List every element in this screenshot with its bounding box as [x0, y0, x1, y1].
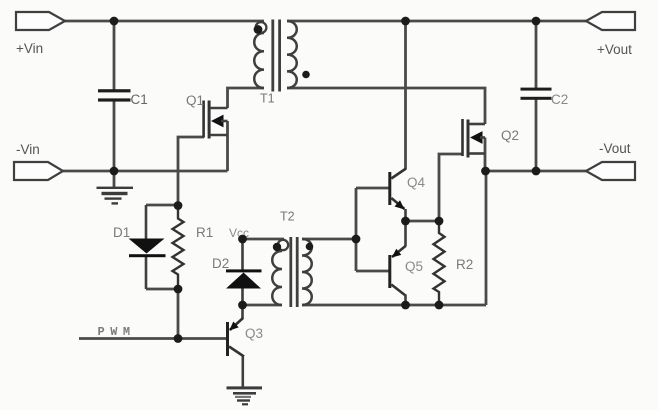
node: D2 / T2 primary bottom / Q3 emitter: [238, 301, 247, 310]
wire: Q2 source to -Vout rail: [484, 138, 487, 172]
svg-text:+Vin: +Vin: [16, 41, 43, 56]
wire: Q5 base: [356, 270, 389, 273]
terminal +Vin: [16, 12, 65, 56]
node: driver output left: [401, 217, 410, 226]
transformer T1: [254, 20, 310, 106]
svg-text:-Vout: -Vout: [599, 141, 631, 156]
node: bottom line / Q5 collector: [401, 301, 410, 310]
svg-text:C1: C1: [131, 92, 148, 107]
wire: Q4 base: [356, 187, 389, 190]
svg-text:Q4: Q4: [407, 175, 426, 190]
wire: ground stem at C1: [113, 171, 116, 187]
svg-text:Q2: Q2: [501, 128, 519, 143]
wire: T2 primary bottom to D2 node: [243, 304, 283, 307]
transistor Q3 (PNP): [226, 305, 263, 387]
wire: riser bottom line to -Vout rail: [485, 171, 488, 305]
transformer T2: [272, 210, 313, 308]
node: D1-R1 bottom: [174, 285, 183, 294]
node: Vcc junction: [238, 235, 247, 244]
node: T2 secondary to base bus: [352, 235, 361, 244]
capacitor C1: [98, 89, 148, 107]
diode D1: [113, 205, 166, 289]
wire: R1 bottom to PWM line: [177, 289, 180, 339]
ground (input side): [97, 187, 134, 205]
svg-text:C2: C2: [551, 92, 568, 107]
wire: PWM input line: [79, 337, 226, 340]
svg-text:T2: T2: [280, 210, 295, 224]
wire: D1-R1 top link: [146, 204, 178, 207]
mosfet Q2: [461, 119, 519, 158]
node: driver output right / R2 top: [435, 217, 444, 226]
wire: T1 secondary bottom to Q2 drain: [287, 88, 485, 124]
svg-text:-Vin: -Vin: [16, 142, 40, 157]
wire: T2 secondary top to driver bases: [302, 238, 356, 241]
wire: driver output node X: [406, 220, 440, 223]
svg-text:+Vout: +Vout: [597, 42, 632, 57]
svg-text:T1: T1: [260, 92, 275, 106]
svg-text:Q5: Q5: [405, 259, 423, 274]
svg-text:Q3: Q3: [245, 326, 263, 341]
wire: top rail from T1 secondary to +Vout: [287, 20, 587, 23]
node: -Vin rail / C1 / ground: [110, 167, 119, 176]
node: -Vout rail / Q2 source: [481, 167, 490, 176]
svg-text:D2: D2: [212, 256, 229, 271]
terminal +Vout: [586, 12, 635, 57]
resistor R2: [434, 221, 474, 305]
wire: -Vin rail: [63, 170, 228, 173]
node: -Vout rail / C2: [532, 167, 541, 176]
node: D1-R1 top: [174, 201, 183, 210]
wire: Q2 gate drop: [439, 154, 462, 221]
resistor R1: [173, 206, 214, 289]
terminal -Vin: [14, 142, 63, 180]
node: bottom line / R2 bottom: [435, 301, 444, 310]
wire: D1-R1 bottom link: [146, 288, 178, 291]
node: top rail / C2: [532, 17, 541, 26]
diode D2: [212, 239, 262, 305]
node: PWM line junction: [174, 334, 183, 343]
wire: C2 bottom lead: [535, 99, 538, 171]
svg-text:R1: R1: [196, 225, 213, 240]
wire: Q1 gate to D1/R1 top node: [178, 137, 204, 206]
svg-text:D1: D1: [113, 225, 130, 240]
wire: C1 top lead: [113, 21, 116, 90]
capacitor C2: [521, 88, 569, 107]
wire: C2 top lead: [535, 21, 538, 89]
transistor Q5 (PNP): [388, 221, 423, 305]
wire: Q1 source to -Vin rail: [226, 121, 229, 171]
transistor Q4 (NPN): [388, 169, 425, 222]
svg-text:Q1: Q1: [186, 93, 204, 108]
wire: Q4 collector to top rail: [404, 21, 407, 169]
wire: bottom return line: [302, 304, 486, 307]
svg-text:R2: R2: [456, 257, 473, 272]
svg-text:PWM: PWM: [98, 325, 136, 339]
mosfet Q1: [186, 93, 228, 139]
wire: Vcc node to T2 primary top: [243, 238, 285, 241]
wire: C1 bottom lead: [113, 101, 116, 172]
node: top rail / C1: [110, 17, 119, 26]
wire: Q4/Q5 base bus: [355, 188, 358, 271]
node: top rail / Q4 collector: [401, 17, 410, 26]
ground (Q3 emitter... collector): [227, 386, 263, 405]
wire: +Vin top rail: [64, 20, 264, 23]
wire: Q1 drain to T1 primary bottom: [228, 88, 265, 108]
wire: -Vout rail: [485, 170, 587, 173]
terminal -Vout: [586, 141, 635, 180]
